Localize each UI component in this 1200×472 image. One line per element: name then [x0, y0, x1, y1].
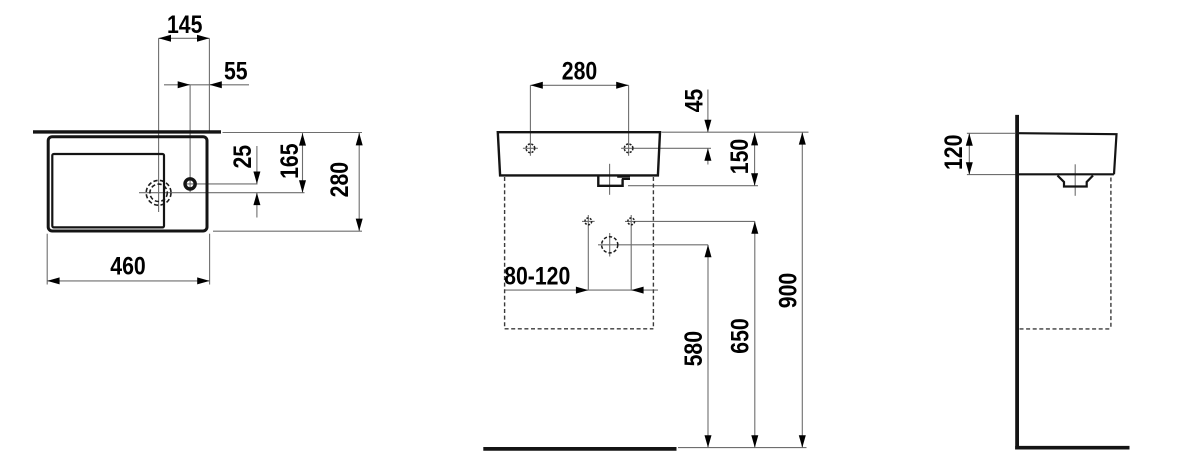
- middle: basin top ext line right: [662, 131, 809, 133]
- svg-text:280: 280: [562, 57, 597, 85]
- svg-text:650: 650: [726, 318, 754, 353]
- arrows dim 580: [705, 245, 712, 257]
- middle: dim line 900: [801, 132, 803, 447]
- middle: wall hole symbols: [585, 218, 592, 225]
- arrows dim 150: [751, 133, 758, 145]
- left view: extension line drain center vertical: [158, 38, 160, 212]
- left view: dim line 280 vertical: [358, 133, 360, 232]
- left view: dim line 145: [159, 37, 210, 39]
- arrows dim 650: [751, 221, 758, 233]
- middle: basin outline: [498, 132, 660, 175]
- middle: left hole cross horizontal: [523, 147, 538, 149]
- right: dashed recess lines: [1110, 178, 1112, 329]
- middle: drain trap outline: [598, 176, 622, 186]
- left view: drain center line horizontal (165 ref): [139, 192, 305, 194]
- middle: dim line 150: [754, 133, 756, 186]
- middle: right hole cross horizontal + ext to 45 dim: [621, 147, 711, 149]
- arrows dim 80-120: [576, 287, 588, 294]
- left view: top edge ext line right: [223, 132, 363, 134]
- left view: inner bowl rect: [52, 154, 164, 227]
- middle: wall hole crosses: [582, 220, 595, 222]
- right: wall thick vertical: [1015, 115, 1019, 450]
- left view: tap hole center line horizontal (25 ref): [184, 183, 258, 185]
- svg-text:55: 55: [224, 57, 248, 85]
- middle: dim line 80-120: [504, 289, 658, 291]
- svg-text:25: 25: [229, 145, 257, 169]
- left view: dim line 460: [47, 280, 209, 282]
- middle: drain symbol: [602, 237, 618, 253]
- left view: dim line 165 vertical: [302, 133, 304, 193]
- arrows dim 25: [253, 172, 260, 184]
- left view: dim line 25 vertical segments: [256, 146, 258, 184]
- svg-text:120: 120: [939, 135, 967, 170]
- svg-text:580: 580: [679, 331, 707, 366]
- svg-text:45: 45: [680, 89, 708, 113]
- right: dim line 120: [968, 133, 970, 174]
- right: floor thick horizontal: [1015, 446, 1129, 450]
- arrows dim 45: [704, 120, 711, 132]
- middle: mounting hole symbols: [526, 144, 535, 153]
- right: 120 ext lines: [967, 132, 1015, 134]
- left view: basin outer rect: [48, 137, 207, 231]
- arrows dim 165: [299, 133, 306, 145]
- left view: drain dashed circles: [146, 180, 171, 205]
- middle: floor thin ext: [678, 447, 807, 449]
- arrows dim 145: [159, 35, 171, 42]
- arrows dim 55: [178, 81, 190, 88]
- svg-text:150: 150: [726, 139, 754, 174]
- svg-text:280: 280: [325, 162, 353, 197]
- middle: drain cross lines: [598, 244, 708, 246]
- svg-text:460: 460: [110, 252, 145, 280]
- left view: tap hole ring: [185, 179, 195, 189]
- left view: wall thick top line: [33, 130, 221, 133]
- right: basin profile: [1019, 133, 1117, 174]
- svg-text:900: 900: [774, 273, 802, 308]
- arrows dim 280 left: [356, 133, 363, 145]
- middle: dashed cabinet outline: [504, 177, 506, 329]
- middle: dim line 280: [530, 84, 628, 86]
- middle: trap center line: [609, 164, 611, 195]
- right: side trap: [1058, 176, 1094, 187]
- arrows dim 460: [47, 277, 59, 284]
- right: trap center line: [1074, 164, 1076, 196]
- middle: hole ext verticals to 280 dim: [529, 85, 531, 156]
- arrows dim 120: [966, 133, 973, 145]
- left view: dim line 55: [164, 84, 249, 86]
- middle: trap bottom ext line (150 ref): [628, 185, 758, 187]
- left view: bottom edge ext line right (280 ref): [213, 230, 362, 232]
- middle: dim line 45 segments: [707, 90, 709, 133]
- middle: floor thick line: [483, 447, 676, 451]
- left view: 460 ext verticals: [46, 234, 48, 285]
- middle: dim line 580: [707, 245, 709, 448]
- svg-text:165: 165: [276, 143, 304, 179]
- arrows dim 900: [799, 132, 806, 144]
- arrows dim 280 middle: [530, 82, 542, 89]
- middle: dim line 650: [754, 221, 756, 447]
- svg-text:145: 145: [167, 10, 203, 38]
- left view: extension line tap center vertical: [189, 85, 191, 192]
- svg-text:80-120: 80-120: [504, 262, 570, 290]
- left view: extension line basin right edge vertical top: [208, 38, 210, 131]
